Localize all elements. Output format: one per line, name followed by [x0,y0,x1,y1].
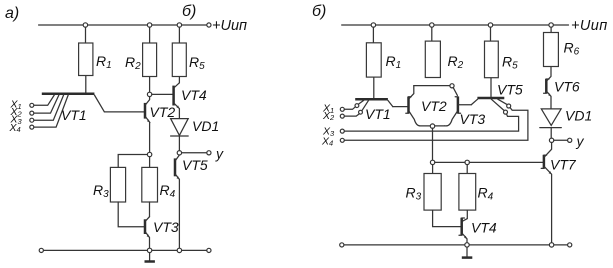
output terminal y (a) [207,146,224,162]
node: VT5 emitter circle 1 (b) [507,104,511,108]
transistor VT6 (b) Schottky [544,76,580,108]
node: VT2 collector / R2 / VT4 base junction (a) [147,92,173,96]
terminal: ground rail left (a) [39,248,43,252]
node: phase splitter emitter junction (a) [147,152,151,156]
node: rail junction R5 (b) [488,23,492,27]
wire: X3 to VT5 emitter 2 (b) [344,114,518,131]
svg-text:б): б) [312,3,326,20]
svg-text:VD1: VD1 [192,118,219,134]
node: R4 top junction (b) [465,160,469,164]
node: rail junction R5 (a) [177,23,181,27]
label b) second [312,3,326,20]
node: VT1 emitter circle 2 (b) [359,110,363,114]
resistor R5 (a) [172,27,205,83]
transistor VT7 (b) Schottky [541,143,577,243]
svg-text:у: у [215,146,224,162]
transistor VT2 (a) [145,97,175,123]
svg-text:VT2: VT2 [150,104,176,120]
diode VD1 (a) [171,118,220,151]
wire: X4 to VT5 emitter 1 (b) [344,108,528,141]
node: rail junction R6 (b) [549,23,553,27]
svg-text:VT5: VT5 [497,82,523,98]
input terminal X3 (a) [10,114,34,126]
label a) [5,5,19,22]
ground symbol (b) [462,247,473,258]
node: rail junction R1 (b) [371,23,375,27]
input terminal X4 (a) [9,122,34,134]
wire: R4 bottom to VT3 collector (a) [149,202,151,217]
node: VT1 emitter circle 1 (b) [355,104,359,108]
terminal +Uip (a) [207,18,247,34]
svg-text:VT3: VT3 [460,111,486,127]
wire: node to R3 branch (a) [118,155,147,168]
resistor R4 (b) [459,165,494,211]
node: VT2/VT3 emitter junction (b) [430,124,434,128]
wire: R3 bottom to VT4 base (b) [433,210,461,227]
input terminal X3 (b) [322,126,344,138]
transistor VT5 (a) [175,155,208,248]
node: rail junction R2 (b) [430,23,434,27]
diode VD1 (b) [540,108,592,139]
input terminal X4 (b) [321,135,344,147]
svg-text:VD1: VD1 [565,108,592,124]
input terminal X1 (b) [322,103,355,115]
output terminal y (b) [568,133,585,149]
svg-text:VT6: VT6 [554,79,580,95]
ground symbol (a) [145,253,155,262]
resistor R6 (b) [544,27,580,76]
label b) first [182,3,196,20]
terminal: ground rail left (b) [340,243,344,247]
transistor VT5 (b) dual-emitter Schottky [472,82,523,111]
input terminal X2 (b) [322,110,359,122]
node: R3 top junction (b) [430,160,434,164]
transistor VT2 (b) Schottky [406,86,447,126]
resistor R2 (a) [125,27,157,92]
resistor R2 (b) [425,27,463,77]
input terminal X1 (a) [10,99,34,111]
svg-text:VT1: VT1 [365,106,391,122]
node: collector junction circle (b) [450,84,454,88]
wire: VT1 collector to VT2 base (b) [393,106,408,108]
resistor R1 (a) [79,27,112,92]
node: rail junction R2 (a) [147,23,151,27]
svg-text:VT7: VT7 [550,157,577,173]
wire: output to terminal (a) [182,152,207,154]
wire: emitter node down to R3/R4 node (b) [432,128,434,160]
wire: circuit b ground rail [344,244,568,246]
svg-text:VT3: VT3 [153,219,179,235]
svg-text:VT4: VT4 [181,87,207,103]
svg-text:б): б) [182,3,196,20]
node: VT5 emitter circle 2 (b) [504,110,508,114]
node: output junction (b) [549,138,553,142]
transistor VT4 (a) [174,83,207,119]
wire: circuit b +U power rail [342,18,608,34]
terminal: ground rail right (a) [207,248,211,252]
transistor VT3 (b) Schottky [445,88,486,127]
resistor R3 (a) [93,167,126,202]
node: VT3 emitter at rail (a) [147,248,151,252]
wire: R3 bottom to VT3 base (a) [118,202,144,227]
svg-text:а): а) [5,5,19,22]
wire: VT1 collector to VT2 base (a) [104,111,144,113]
node: VT7 emitter at rail (b) [549,243,553,247]
terminal: ground rail right (b) [568,243,572,247]
transistor VT1 (b) multi-emitter Schottky [355,99,393,122]
node: output junction (a) [177,151,181,155]
transistor VT1 (a) multi-emitter [34,94,105,127]
transistor VT3 (a) [145,217,179,249]
svg-text:+Uип: +Uип [212,18,247,34]
svg-text:VT5: VT5 [182,157,208,173]
resistor R1 (b) [366,27,401,98]
input terminal X2 (a) [10,106,34,118]
node: VT5 emitter at rail (a) [177,248,181,252]
wire: circuit a ground rail [43,249,206,251]
svg-text:у: у [576,133,585,149]
transistor VT4 (b) Schottky [459,218,497,243]
resistor R5 (b) [485,27,519,96]
svg-text:VT2: VT2 [421,98,447,114]
resistor R4 (a) [142,167,176,202]
wire: output to terminal (b) [554,139,568,141]
svg-text:+Uип: +Uип [571,18,608,34]
wire: circuit a +U power rail [39,24,207,26]
svg-text:VT1: VT1 [61,107,87,123]
resistor R3 (b) [406,165,442,211]
wire: VT2/VT3 common collector (b) [414,85,450,87]
svg-text:VT4: VT4 [471,220,497,236]
wire: VT2 emitter down to node (a) [149,123,151,153]
wire: R4 bottom to VT4 collector (b) [463,210,467,221]
wire: node row to VT7 base (b) [435,161,543,163]
wire: node to R4 (a) [149,157,151,168]
node: VT4 emitter at rail (b) [465,243,469,247]
node: rail junction R1 (a) [83,23,87,27]
